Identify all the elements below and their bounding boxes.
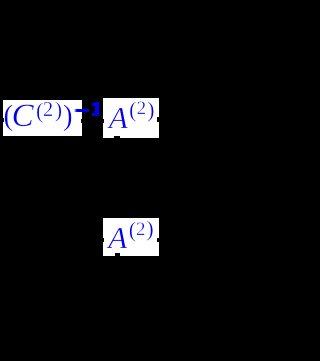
formula 1: open paren [3,101,13,131]
formula 3: superscript close paren [146,218,153,240]
formula 1: exponent bold digit 1 (stem) [95,102,99,116]
formula 2: A italic [109,102,128,133]
formula 3: A italic [108,222,127,253]
white image background box 1 (formula (C^(2))^-1) [3,100,83,136]
formula 1: superscript close paren [55,99,62,121]
black notch right edge box3 [157,238,161,243]
formula 1: C italic [12,100,34,133]
black notch left edge box1 [0,118,4,122]
formula 3: superscript digit 2 [136,220,146,239]
black notch left edge box2 [101,119,104,123]
formula 2: superscript open paren [129,99,136,121]
formula 1: superscript open paren [36,100,43,122]
white image background box 3 (formula A^(2) bottom) [103,218,160,256]
black notch right edge box1 [81,119,84,123]
formula 1: exponent bold digit 1 (foot) [92,113,99,116]
formula 1: exponent minus sign [74,109,89,111]
black notch bottom edge box2 [114,136,119,139]
formula 1: superscript digit 2 [43,100,53,121]
formula 1: close paren [63,101,73,131]
formula 2: superscript close paren [147,99,154,121]
formula 2: superscript digit 2 [137,99,147,118]
formula 1: exponent bold digit 1 (flag) [92,103,95,106]
black notch bottom edge box3 [115,253,119,257]
black notch left edge box3 [101,238,104,242]
white image background box 2 (formula A^(2) top) [103,98,159,138]
black notch right edge box2 [157,117,161,122]
formula 3: superscript open paren [129,219,136,241]
